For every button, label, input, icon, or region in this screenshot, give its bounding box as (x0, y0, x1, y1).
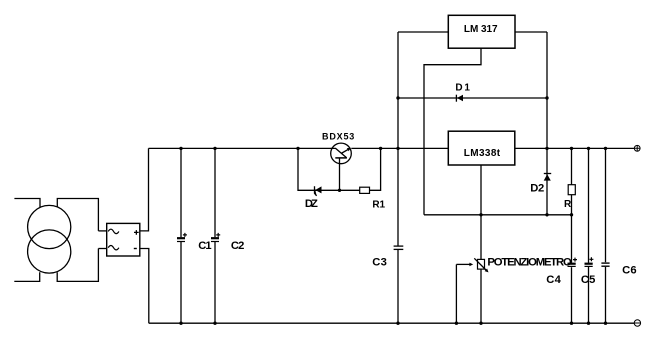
svg-text:LM338t: LM338t (464, 148, 501, 159)
svg-text:C5: C5 (581, 274, 596, 286)
svg-text:DZ: DZ (305, 198, 318, 210)
svg-text:BDX53: BDX53 (322, 132, 354, 142)
svg-text:R: R (564, 199, 572, 210)
svg-text:C1: C1 (198, 240, 211, 252)
svg-text:D2: D2 (530, 182, 544, 194)
svg-text:C6: C6 (622, 265, 637, 277)
svg-text:POTENZIOMETRO: POTENZIOMETRO (487, 257, 572, 269)
svg-text:C4: C4 (546, 274, 561, 286)
svg-text:C2: C2 (231, 240, 245, 252)
svg-text:C3: C3 (372, 256, 387, 268)
svg-text:R1: R1 (372, 200, 385, 211)
svg-text:LM 317: LM 317 (464, 24, 498, 35)
